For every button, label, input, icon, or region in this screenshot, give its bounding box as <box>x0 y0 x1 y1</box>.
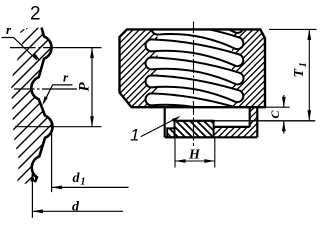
thread profile curve (round thread flank) <box>31 29 52 182</box>
washer part 1 hatching <box>138 118 237 140</box>
washer top line and C/T1 bottom extension line <box>175 120 316 122</box>
extension line from bottom face (C top) <box>265 106 290 108</box>
svg-text:d: d <box>73 171 81 186</box>
nut body outline <box>120 29 266 107</box>
washer part 1 outline <box>167 121 213 138</box>
extension line through lower crest <box>15 126 102 128</box>
svg-text:1: 1 <box>130 126 139 145</box>
threaded bore background <box>158 29 233 107</box>
callout 1 (washer part) <box>130 116 181 145</box>
dimension d (major diameter) <box>31 171 124 218</box>
dimension d1 (minor diameter) <box>52 127 129 192</box>
callout 2 (thread profile) <box>20 4 40 33</box>
section hatching of nut body walls <box>13 25 320 112</box>
boss outline below nut <box>165 107 258 137</box>
centerline through root <box>14 88 77 90</box>
dimension C (undercut) <box>268 95 286 134</box>
leader r (root radius) <box>42 70 72 106</box>
svg-text:H: H <box>188 148 201 163</box>
dimension P (pitch) <box>76 48 94 127</box>
section hatching of thread profile material <box>0 20 244 195</box>
svg-text:C: C <box>268 110 282 119</box>
round thread turns inside bore <box>146 6 244 120</box>
svg-text:2: 2 <box>30 4 41 25</box>
vertical centerline of nut <box>193 22 195 147</box>
dimension H (hole width) <box>175 137 215 167</box>
svg-text:d: d <box>72 200 80 215</box>
svg-text:T: T <box>292 68 307 78</box>
svg-text:1: 1 <box>81 177 86 188</box>
section hatching of nut bottom flange <box>165 105 295 140</box>
dimension T1 (thread depth) <box>269 29 317 120</box>
leader r (upper radius) <box>2 22 41 61</box>
svg-text:P: P <box>76 82 92 92</box>
svg-text:1: 1 <box>298 62 309 67</box>
centerline through upper crest <box>10 47 102 49</box>
